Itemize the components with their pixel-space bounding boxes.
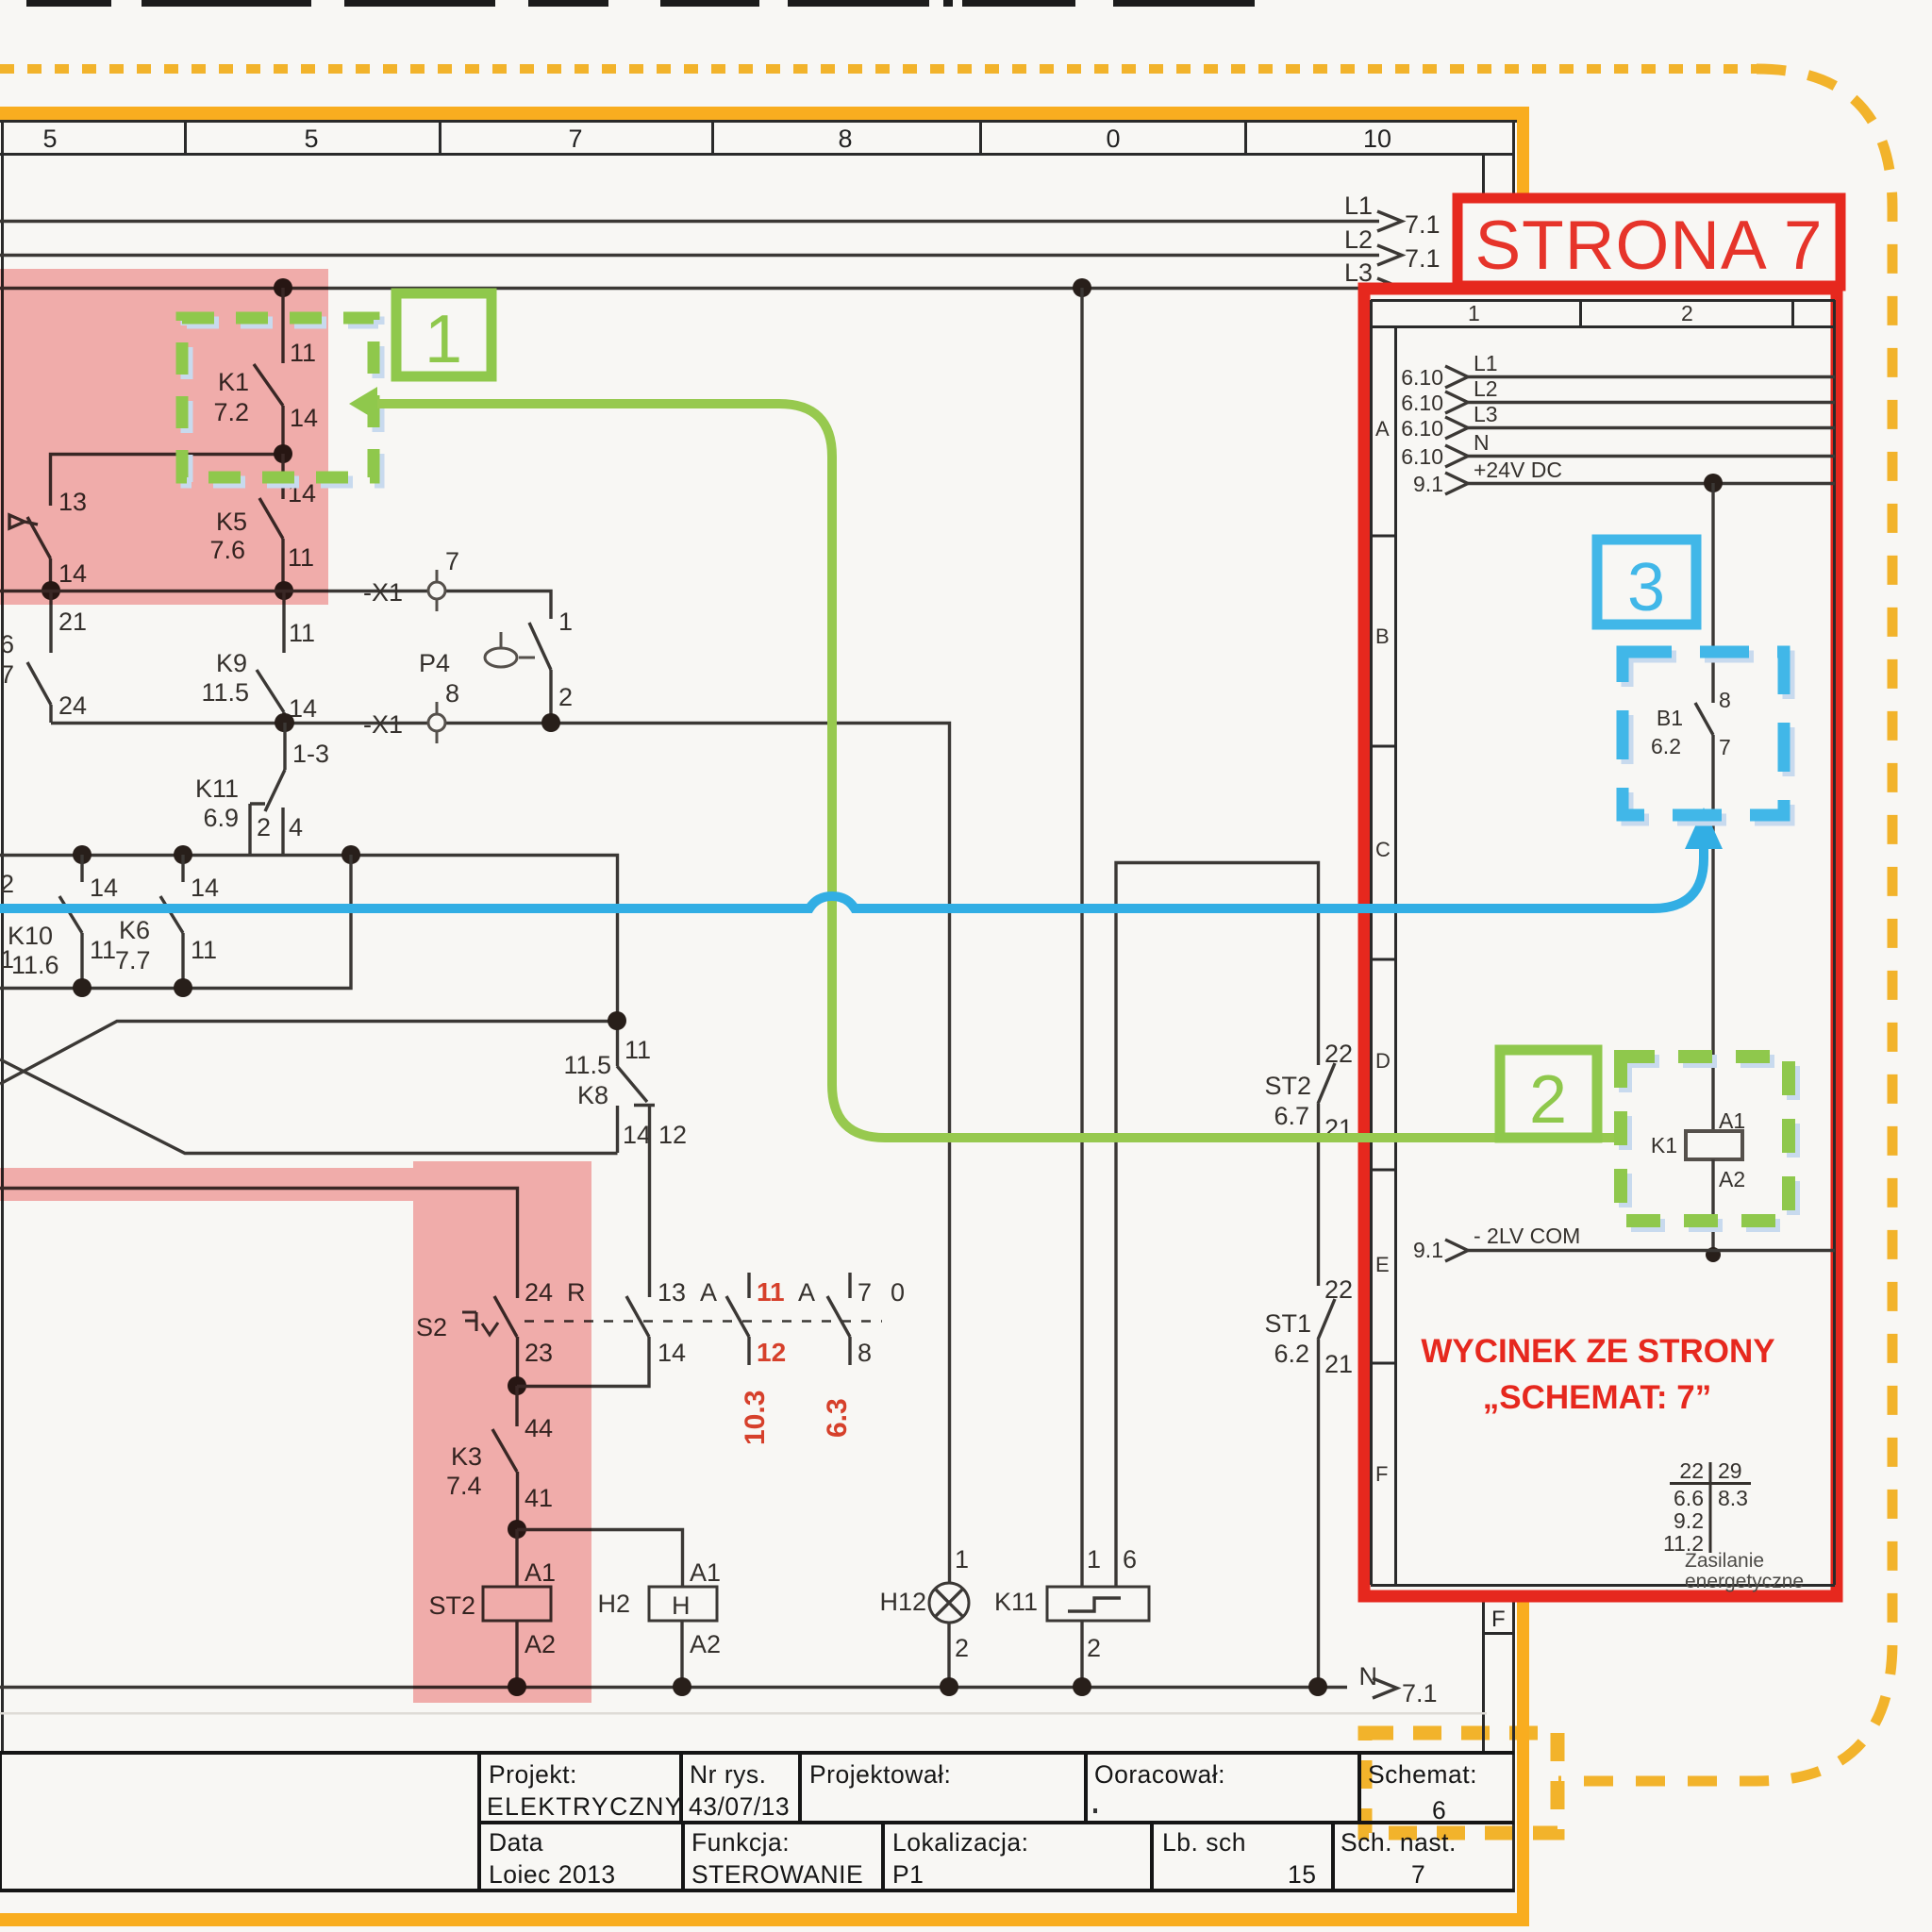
cross reference table	[1670, 1462, 1751, 1553]
svg-text:H2: H2	[597, 1590, 630, 1618]
svg-text:N: N	[1359, 1662, 1378, 1690]
wire dashed mechanical linkage	[525, 1320, 882, 1323]
svg-text:6.7: 6.7	[1274, 1102, 1309, 1130]
svg-text:A: A	[1375, 417, 1390, 441]
svg-text:11: 11	[289, 619, 315, 647]
svg-text:6: 6	[0, 630, 14, 658]
node junction dots on bus row C	[73, 845, 92, 864]
green dashed box 2 (annotation)	[1621, 1057, 1789, 1221]
contact K3 7.4	[515, 1386, 518, 1426]
svg-text:6: 6	[1432, 1796, 1446, 1824]
node junction dot (300,481)	[274, 444, 292, 463]
svg-text:6.10: 6.10	[1401, 391, 1443, 415]
svg-text:D: D	[1375, 1049, 1391, 1073]
svg-text:7: 7	[858, 1278, 872, 1307]
contact K6 7.7	[181, 855, 184, 882]
svg-text:0: 0	[1106, 125, 1120, 153]
svg-text:A2: A2	[1719, 1167, 1745, 1191]
svg-text:Lokalizacja:: Lokalizacja:	[892, 1828, 1028, 1857]
node junction dot on L3 (1147,305)	[1073, 278, 1091, 297]
svg-text:12: 12	[658, 1121, 687, 1149]
svg-text:K1: K1	[1651, 1133, 1677, 1158]
contact S? 13/14 (cut at page edge)	[27, 517, 51, 558]
contact K10 11.6	[80, 855, 83, 882]
svg-text:22: 22	[1324, 1275, 1353, 1304]
svg-text:7.1: 7.1	[1405, 210, 1441, 239]
ruler band	[0, 120, 1517, 1892]
inset inner frame	[1371, 300, 1835, 1586]
svg-text:15: 15	[1288, 1860, 1316, 1889]
green dashed box 1 (annotation)	[182, 318, 374, 477]
svg-text:24: 24	[58, 691, 87, 720]
svg-text:C: C	[1375, 838, 1391, 861]
svg-text:A: A	[700, 1278, 717, 1307]
node junction dot (548,1469)	[508, 1376, 526, 1395]
svg-text:8: 8	[858, 1339, 872, 1367]
contact K9 11.5	[282, 591, 285, 653]
wire L1 line	[0, 220, 1379, 223]
svg-text:11.6: 11.6	[11, 951, 59, 979]
svg-text:K11: K11	[195, 774, 239, 803]
svg-text:L3: L3	[1474, 402, 1498, 426]
svg-text:1: 1	[558, 608, 573, 636]
green number box 2	[1500, 1050, 1597, 1138]
svg-text:8.3: 8.3	[1718, 1486, 1748, 1510]
wire crossover lower branch to K8	[0, 1059, 618, 1154]
svg-text:Ooracował:: Ooracował:	[1094, 1760, 1225, 1789]
wire H2 branch	[517, 1530, 683, 1588]
yellow dotted page border	[0, 64, 1757, 74]
svg-text:11: 11	[90, 936, 116, 964]
blue annotation line to B1 with arrow	[0, 849, 1704, 908]
contact ?.6/?.7 21/24 (cut labels)	[49, 591, 52, 653]
wire K11 coil pin1 feed from L3	[1080, 288, 1083, 1587]
svg-text:L1: L1	[1344, 192, 1373, 220]
svg-text:0: 0	[891, 1278, 905, 1307]
contact K5 7.6	[281, 454, 284, 499]
node junction dot (1147,1788)	[1073, 1677, 1091, 1696]
svg-text:11: 11	[757, 1277, 785, 1307]
svg-text:7: 7	[1411, 1860, 1425, 1889]
svg-text:6.2: 6.2	[1651, 734, 1681, 758]
svg-text:ELEKTRYCZNY: ELEKTRYCZNY	[487, 1792, 683, 1821]
ruler numbers	[42, 125, 1391, 153]
svg-text:7: 7	[568, 125, 582, 153]
svg-text:22: 22	[1324, 1040, 1353, 1068]
svg-text:1: 1	[0, 945, 14, 974]
svg-text:Nr rys.: Nr rys.	[690, 1760, 767, 1789]
node junction dot (1816,518)	[1704, 474, 1723, 492]
svg-text:L1: L1	[1474, 351, 1498, 375]
svg-text:STRONA 7: STRONA 7	[1474, 208, 1823, 284]
svg-text:K8: K8	[577, 1081, 608, 1109]
svg-text:1: 1	[1468, 301, 1480, 325]
scan artifact dashes at top edge	[26, 0, 1255, 7]
contact K1 7.2	[281, 288, 284, 363]
svg-text:K9: K9	[216, 649, 247, 677]
svg-text:„SCHEMAT: 7”: „SCHEMAT: 7”	[1483, 1379, 1711, 1416]
svg-text:ST1: ST1	[1264, 1309, 1311, 1338]
node junction dot (302,766) top of K11 aux	[275, 713, 294, 732]
node N arrow 7.1	[1373, 1678, 1397, 1698]
right row-letter column: F box	[1484, 1632, 1514, 1635]
node L1 arrow 7.1	[1377, 211, 1402, 231]
blue dashed box 3 (annotation)	[1623, 652, 1784, 815]
orange border top bar	[0, 107, 1529, 120]
svg-text:2: 2	[558, 683, 573, 711]
wire limit-switch feed to contact 13/14	[51, 455, 285, 507]
svg-text:7: 7	[0, 660, 14, 689]
blue number box 3	[1597, 540, 1696, 625]
svg-text:7: 7	[1719, 735, 1731, 759]
node junction dot (548,1621)	[508, 1520, 526, 1539]
svg-text:K6: K6	[119, 916, 150, 944]
pink highlight region 1	[0, 269, 328, 605]
inset row letter dividers	[1371, 536, 1395, 1363]
green number box 1	[396, 293, 491, 376]
svg-text:Data: Data	[489, 1828, 543, 1857]
node junction dots on bus row D	[73, 978, 92, 997]
svg-text:2: 2	[1681, 301, 1693, 325]
svg-text:Funkcja:: Funkcja:	[691, 1828, 790, 1857]
node junction dot (654,1082)	[608, 1011, 626, 1030]
svg-text:21: 21	[58, 608, 87, 636]
node junction dot (548,1788)	[508, 1677, 526, 1696]
svg-text:Projekt:: Projekt:	[489, 1760, 577, 1789]
svg-text:14: 14	[658, 1339, 686, 1367]
svg-text:7.1: 7.1	[1402, 1679, 1438, 1707]
svg-text:E: E	[1375, 1253, 1390, 1276]
svg-text:B1: B1	[1657, 706, 1683, 730]
svg-text:2: 2	[955, 1634, 969, 1662]
svg-text:6.10: 6.10	[1401, 416, 1443, 441]
svg-text:11.5: 11.5	[201, 678, 249, 707]
node junction dot (301,766)	[275, 713, 293, 732]
node L3 arrow 7.1	[1377, 278, 1402, 298]
wire L3 line	[0, 287, 1379, 290]
svg-text:P4: P4	[419, 649, 450, 677]
svg-text:F: F	[1375, 1462, 1388, 1486]
svg-text:H: H	[672, 1591, 691, 1620]
svg-text:K11: K11	[994, 1588, 1038, 1616]
svg-text:5: 5	[304, 125, 318, 153]
wire S2 feed	[0, 1189, 518, 1299]
svg-text:6.6: 6.6	[1674, 1486, 1704, 1510]
green arrow line from inset K1 to box 1	[375, 404, 1628, 1138]
svg-text:6: 6	[1123, 1545, 1137, 1574]
svg-text:2: 2	[1087, 1634, 1101, 1662]
svg-text:-X1: -X1	[363, 578, 403, 607]
svg-text:Lb. sch: Lb. sch	[1162, 1828, 1246, 1857]
svg-text:7.1: 7.1	[1405, 244, 1441, 273]
svg-text:7: 7	[445, 547, 459, 575]
inset row letters	[1375, 417, 1391, 1486]
svg-text:1: 1	[425, 302, 462, 377]
svg-text:energetyczne: energetyczne	[1685, 1571, 1804, 1592]
svg-text:43/07/13: 43/07/13	[689, 1792, 790, 1821]
svg-text:29: 29	[1718, 1458, 1742, 1483]
svg-text:K10: K10	[8, 922, 53, 950]
svg-text:4: 4	[289, 813, 303, 841]
svg-text:1-3: 1-3	[292, 740, 329, 768]
svg-text:Projektował:: Projektował:	[809, 1760, 951, 1789]
svg-text:12: 12	[757, 1338, 786, 1367]
svg-text:21: 21	[1324, 1350, 1353, 1378]
svg-text:11.5: 11.5	[563, 1051, 611, 1079]
node junction dot (1397,1788)	[1308, 1677, 1327, 1696]
svg-text:6.2: 6.2	[1274, 1340, 1309, 1368]
red label box STRONA 7	[1457, 198, 1840, 286]
svg-text:8: 8	[445, 679, 459, 708]
svg-text:A1: A1	[690, 1558, 721, 1587]
contact A 11/12 (red pins)	[747, 1273, 750, 1298]
svg-text:H12: H12	[879, 1588, 926, 1616]
faint scan line above title block	[0, 1712, 1487, 1715]
svg-text:WYCINEK ZE STRONY: WYCINEK ZE STRONY	[1421, 1333, 1774, 1370]
svg-text:13: 13	[658, 1278, 686, 1307]
title block borders	[0, 1753, 1514, 1890]
node L2 arrow 7.1	[1377, 245, 1402, 265]
wire crossover upper branch	[0, 1022, 617, 1085]
svg-text:2: 2	[0, 870, 14, 898]
orange border bottom bar	[0, 1913, 1529, 1926]
svg-text:1: 1	[1087, 1545, 1101, 1574]
node junction dot (54,626)	[42, 581, 60, 600]
svg-text:9.1: 9.1	[1413, 1238, 1443, 1262]
actuator symbol (cut)	[9, 515, 38, 528]
svg-text:6.10: 6.10	[1401, 444, 1443, 469]
wire B1 column upper	[1711, 483, 1714, 703]
wire L2 line	[0, 254, 1379, 257]
svg-text:-X1: -X1	[363, 710, 403, 739]
coil ST2	[515, 1529, 518, 1587]
svg-text:2: 2	[257, 813, 271, 841]
svg-text:STEROWANIE: STEROWANIE	[691, 1860, 863, 1889]
node junction dot (1816,1330)	[1706, 1247, 1721, 1262]
svg-text:8: 8	[1719, 688, 1731, 712]
contact 0 7/8	[848, 1273, 851, 1298]
orange border right bar	[1517, 107, 1529, 1926]
svg-text:F: F	[1491, 1607, 1506, 1632]
svg-text:5: 5	[42, 125, 57, 153]
shadow of blue dashed box 3	[1627, 657, 1789, 820]
svg-text:L2: L2	[1474, 376, 1498, 401]
svg-text:Loiec 2013: Loiec 2013	[489, 1860, 616, 1889]
svg-text:11: 11	[191, 936, 217, 964]
svg-text:3: 3	[1627, 550, 1665, 625]
pink highlight region 2 (L-shape)	[0, 1161, 591, 1703]
svg-text:14: 14	[90, 874, 118, 902]
wire bus row D joining row C	[0, 855, 351, 989]
svg-text:ST2: ST2	[1264, 1072, 1311, 1100]
svg-text:10.3: 10.3	[740, 1391, 771, 1445]
contact K11 6.9 changeover	[283, 723, 286, 770]
svg-text:9.2: 9.2	[1674, 1508, 1704, 1533]
svg-text:Sch. nast.: Sch. nast.	[1341, 1828, 1457, 1857]
red inset border box	[1364, 289, 1837, 1596]
wire bus row C	[0, 856, 618, 1067]
svg-text:Schemat:: Schemat:	[1368, 1760, 1477, 1789]
node junction dot (723,1788)	[673, 1677, 691, 1696]
svg-text:6.10: 6.10	[1401, 365, 1443, 390]
svg-text:10: 10	[1363, 125, 1391, 153]
svg-text:2: 2	[1529, 1062, 1567, 1138]
node junction dot (1006,1788)	[940, 1677, 958, 1696]
svg-text:11: 11	[625, 1036, 651, 1064]
svg-text:6.9: 6.9	[203, 804, 239, 832]
svg-text:+24V DC: +24V DC	[1474, 458, 1562, 482]
shadow of green dashed box 2	[1625, 1061, 1793, 1225]
svg-text:Zasilanie: Zasilanie	[1685, 1550, 1764, 1572]
yellow dashed highlight box around Schemat cell	[1365, 1733, 1557, 1833]
svg-text:A2: A2	[690, 1630, 721, 1658]
wire K11 coil pin6 to ST2 contact	[1116, 863, 1319, 1588]
svg-text:9.1: 9.1	[1413, 472, 1443, 496]
wire bus X1:8 row, feeds H12	[51, 724, 950, 1585]
svg-text:P1: P1	[892, 1860, 924, 1889]
node junction dot (584,766)	[541, 713, 560, 732]
svg-text:N: N	[1474, 430, 1490, 455]
wire N line	[0, 1686, 1347, 1689]
svg-text:22: 22	[1679, 1458, 1704, 1483]
svg-text:14: 14	[191, 874, 219, 902]
node junction dot (301,626)	[275, 581, 293, 600]
svg-text:6.3: 6.3	[822, 1398, 853, 1438]
svg-text:L2: L2	[1344, 225, 1373, 254]
node junction dot on L3 for K1 column	[274, 278, 292, 297]
svg-text:8: 8	[838, 125, 852, 153]
svg-text:14: 14	[623, 1121, 651, 1149]
svg-text:1: 1	[955, 1545, 969, 1574]
svg-text:A: A	[798, 1278, 815, 1307]
svg-text:- 2LV COM: - 2LV COM	[1474, 1224, 1580, 1248]
wire bus X1:7 row	[0, 591, 551, 620]
svg-text:7.7: 7.7	[115, 946, 151, 974]
shadow of green dashed box 1	[187, 323, 378, 482]
svg-text:B: B	[1375, 625, 1390, 648]
